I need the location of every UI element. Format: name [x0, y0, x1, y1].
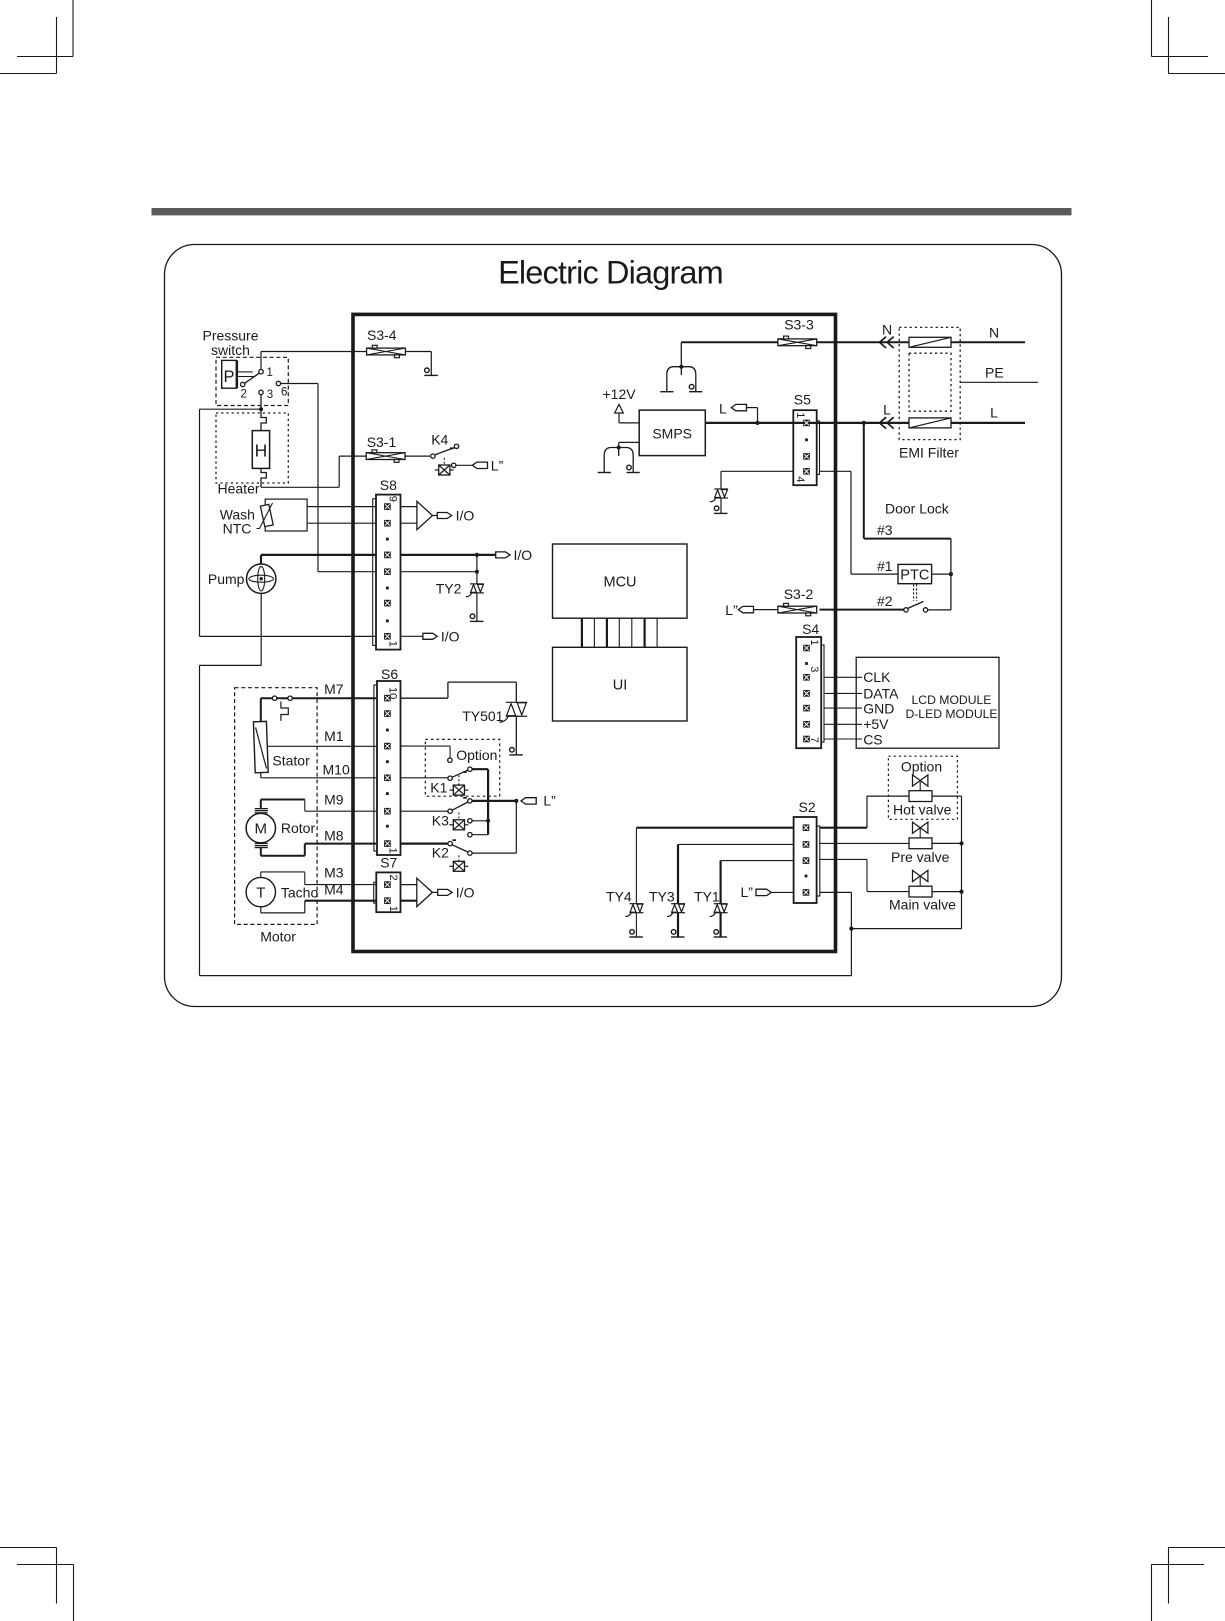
relay K1 common [448, 776, 452, 780]
triac TY1 [710, 904, 728, 917]
connector S4 [796, 637, 821, 748]
svg-text:Motor: Motor [260, 929, 296, 945]
motor dashed box [235, 688, 318, 925]
relay K4 coil [435, 465, 454, 475]
svg-text:Tacho: Tacho [281, 884, 319, 900]
svg-text:Pre valve: Pre valve [891, 849, 950, 865]
pressure sensor P body [222, 360, 237, 388]
wire L'' to S2 pin5 [771, 891, 793, 893]
relay K4 mech link [443, 458, 445, 465]
door switch NO [923, 608, 927, 612]
wire TY2 to terminal [476, 593, 478, 622]
wire hot valve return [932, 795, 962, 797]
svg-text:3: 3 [808, 666, 820, 672]
svg-text:EMI Filter: EMI Filter [899, 445, 959, 461]
crop mark bottom-right [1152, 1548, 1225, 1621]
heater bottom lead zigzag [261, 468, 266, 487]
fuse S3-3 [778, 336, 817, 348]
crop mark bottom-left [0, 1548, 74, 1621]
relay K3 mech link [458, 813, 460, 820]
wire heater to S3-1 [261, 486, 339, 488]
connector S7 shroud [374, 882, 377, 903]
wire L flag to L line [747, 407, 758, 409]
UI box [553, 647, 688, 721]
switch lever 2-1 [245, 373, 260, 383]
svg-text:4: 4 [794, 476, 806, 482]
svg-text:K4: K4 [431, 432, 448, 448]
svg-text:M8: M8 [324, 828, 344, 844]
connector S4 pins [803, 645, 810, 743]
wire M10 to K1 [401, 777, 448, 779]
connector S2 pins [803, 824, 810, 895]
wire M9 [260, 800, 262, 809]
wire pump return [260, 593, 262, 665]
wire bottom return rail [200, 975, 852, 977]
grey header rule [152, 208, 1072, 215]
op-amp U-S7 [401, 884, 417, 886]
node L'' relays [514, 799, 518, 803]
wire M1 to option contact [401, 745, 451, 747]
heater element H [252, 431, 269, 469]
pressure actuator links [238, 371, 253, 373]
svg-text:P: P [223, 368, 234, 386]
wire M4 [260, 907, 262, 913]
terminal of TY2 [470, 614, 484, 621]
svg-text:2: 2 [387, 875, 399, 881]
node TY2 pin4 [475, 570, 479, 574]
fuse S3-2 [778, 603, 817, 615]
svg-text:S6: S6 [381, 666, 398, 682]
node K3 bus [486, 819, 490, 823]
wire main valve return [932, 891, 962, 893]
svg-text:1: 1 [794, 412, 806, 418]
wire pump to S8 pin3 [260, 555, 262, 564]
svg-text:Stator: Stator [272, 752, 310, 768]
wire +5V [824, 723, 862, 725]
wire S8 pin3 to I/O [401, 554, 496, 556]
connector S6 shroud [374, 685, 377, 851]
svg-text:S7: S7 [380, 855, 397, 871]
wire S2 pin5 to return [820, 891, 852, 893]
mains plug lower [598, 446, 640, 473]
+12V arrow [615, 404, 624, 413]
valve symbol main [913, 870, 928, 881]
option contact [448, 758, 452, 762]
wire sense to S8 pin6 [200, 635, 377, 637]
wire S8 pin4 to TY2 [401, 571, 477, 573]
triac TY2 [466, 584, 484, 597]
connector S4 shroud [821, 645, 824, 742]
wire K4 coil to L-flag [456, 464, 472, 466]
thermistor element [260, 504, 273, 526]
relay K1 mech link [458, 775, 460, 784]
connector S5 pins [803, 420, 810, 427]
wire S2 pin1 to TY4 [636, 827, 793, 829]
terminal of TY501 [509, 748, 523, 755]
svg-text:L: L [883, 401, 891, 417]
svg-text:CLK: CLK [863, 669, 891, 685]
svg-text:S2: S2 [799, 799, 816, 815]
connector S8 pins [384, 503, 391, 639]
wire K3 A to bus [472, 820, 488, 822]
node L SMPS [755, 421, 759, 425]
svg-text:Rotor: Rotor [281, 820, 316, 836]
EMI choke L [909, 418, 951, 428]
fuse S3-1 [366, 450, 405, 462]
relay K4 NO contact [454, 444, 458, 448]
svg-text:Door Lock: Door Lock [885, 501, 950, 517]
relay K3 coil [449, 820, 468, 830]
wire TY1 to terminal [719, 913, 721, 937]
svg-text:switch: switch [211, 342, 250, 358]
node PTC junction [949, 572, 953, 576]
wire contact6 to S8 pin4 [281, 383, 318, 385]
chevrons L [880, 417, 894, 428]
flag L'' at S2 [756, 889, 771, 895]
crop mark top-right [1152, 0, 1225, 74]
relay K4 lever [435, 448, 455, 455]
wire M3 [260, 872, 262, 878]
connector S7 pins [384, 881, 391, 888]
wire TY501 to terminal [515, 716, 517, 755]
relay K3 lever [452, 802, 468, 810]
svg-text:S3-2: S3-2 [784, 586, 814, 602]
wire contact3 down to heater [260, 395, 262, 414]
wire NTC to S8 pin2 [307, 522, 376, 524]
svg-text:PE: PE [985, 364, 1004, 380]
wire N line [681, 341, 1025, 343]
pump motor [247, 564, 276, 593]
EMI choke N [909, 337, 951, 347]
triac TY3 [667, 904, 685, 917]
connector S2 [794, 817, 817, 903]
fuse S3-4 [367, 345, 406, 357]
heater top lead zigzag [261, 413, 266, 430]
wire left rail down [199, 409, 201, 636]
rotor bottom brush [255, 842, 268, 844]
wire S5 pin4 left [721, 470, 793, 472]
svg-text:M9: M9 [324, 792, 344, 808]
svg-text:3: 3 [267, 389, 273, 401]
wire NTC to S8 pin1 [307, 506, 376, 508]
svg-text:M: M [255, 821, 268, 838]
wire S2 pin1 to hot valve [820, 827, 867, 829]
terminal of TY1 [714, 930, 728, 937]
svg-text:S8: S8 [380, 477, 397, 493]
triac TY4 [625, 904, 643, 917]
svg-text:M4: M4 [324, 881, 344, 897]
terminal of S3-4 [424, 368, 438, 375]
terminal of TY3 [671, 930, 685, 937]
svg-text:1: 1 [267, 367, 273, 379]
M7 inline contacts [272, 696, 276, 700]
svg-text:9: 9 [386, 496, 398, 502]
wire S7 opamp to flag [432, 891, 437, 893]
connector S5 shroud [817, 421, 820, 474]
svg-text:D-LED MODULE: D-LED MODULE [905, 707, 997, 721]
svg-text:#3: #3 [877, 522, 893, 538]
crop mark top-left [0, 0, 73, 74]
wire M9 to K3 [401, 810, 448, 812]
svg-text:K3: K3 [432, 813, 449, 829]
svg-text:H: H [255, 441, 268, 461]
PTC box [898, 564, 932, 583]
svg-text:1: 1 [387, 906, 399, 912]
relay K2 coil [449, 861, 468, 871]
svg-text:K1: K1 [430, 780, 447, 796]
wire S2 pin3 to TY1 [721, 860, 794, 862]
SMPS box [639, 410, 705, 456]
relay K1 lever [452, 770, 468, 777]
pre valve coil [909, 838, 932, 849]
wire S5 pin4 right [820, 470, 852, 472]
svg-text:TY4: TY4 [606, 888, 632, 904]
door switch lever [908, 601, 924, 608]
flag I/O wash sense [437, 513, 451, 519]
contact 3 [259, 390, 263, 394]
wire M10 [260, 773, 262, 778]
svg-text:S5: S5 [794, 391, 811, 407]
svg-text:I/O: I/O [456, 507, 475, 523]
wire S2 pin2 to pre valve [820, 842, 909, 844]
svg-text:L”: L” [741, 884, 754, 900]
MCU box [553, 544, 688, 618]
svg-text:GND: GND [863, 700, 894, 716]
wire opamp to I/O flag [433, 515, 438, 517]
svg-text:1: 1 [386, 848, 398, 854]
svg-text:M1: M1 [324, 728, 344, 744]
flag L'' at S3-2 [738, 606, 753, 612]
wire L'' flag to S3-2 [754, 609, 778, 611]
flag L'' relays [521, 798, 536, 804]
wire TY3 to terminal [677, 913, 679, 937]
wire M1 [268, 745, 377, 747]
connector S2 shroud [817, 826, 820, 896]
wire L line [705, 422, 864, 424]
svg-text:2: 2 [241, 388, 247, 400]
connector S6 pins [384, 695, 391, 847]
contact 2 [241, 382, 245, 386]
svg-text:T: T [256, 885, 265, 902]
svg-text:+5V: +5V [863, 716, 889, 732]
triac TY501 [499, 702, 527, 722]
option valve dashed box [888, 756, 957, 819]
wash NTC body box [265, 499, 307, 531]
svg-text:L”: L” [491, 457, 504, 473]
svg-text:LCD MODULE: LCD MODULE [912, 693, 992, 707]
svg-text:Option: Option [901, 758, 942, 774]
svg-text:K2: K2 [432, 845, 449, 861]
wire S2 pin3 to main valve [820, 858, 867, 860]
stator winding [260, 698, 262, 721]
relay K1 coil [449, 785, 468, 795]
wire K3 B to bus [472, 834, 488, 836]
wire TY2 vertical [476, 555, 478, 584]
relay K2 common [448, 841, 452, 845]
LCD module box [856, 657, 999, 748]
hot valve coil [909, 791, 932, 802]
svg-text:M3: M3 [324, 864, 344, 880]
svg-text:I/O: I/O [441, 628, 460, 644]
svg-text:M10: M10 [323, 762, 350, 778]
relay K2 mech link [458, 855, 460, 862]
wire M7 [261, 697, 376, 699]
contact 1 [259, 370, 263, 374]
wire S8 pin6 to I/O [401, 635, 423, 637]
wire DATA [824, 692, 862, 694]
svg-text:UI: UI [613, 678, 628, 694]
chevrons N [880, 337, 894, 348]
relay K4 common contact [431, 454, 435, 458]
wire K2 NO to L-node [472, 852, 516, 854]
svg-text:S3-3: S3-3 [784, 317, 814, 333]
wire S3-2 line [820, 609, 904, 611]
svg-text:NTC: NTC [223, 521, 252, 537]
connector S8 [376, 495, 401, 650]
wire plug to SMPS [618, 442, 620, 447]
triac door [710, 489, 728, 502]
wire PE [960, 381, 1038, 383]
node L to door [862, 421, 866, 425]
svg-text:Heater: Heater [218, 481, 260, 497]
wire PTC right [932, 573, 951, 575]
svg-text:S3-1: S3-1 [367, 434, 397, 450]
svg-text:TY501: TY501 [462, 708, 503, 724]
flag L'' at K4 [472, 462, 487, 468]
option dashed box [425, 739, 499, 796]
flag I/O tacho [438, 889, 452, 895]
connector S8 shroud [373, 499, 376, 646]
svg-text:L: L [719, 401, 727, 417]
EMI filter inner dashed box [909, 353, 951, 411]
svg-text:CS: CS [863, 732, 882, 748]
wire L line right [864, 422, 1025, 424]
wire plug to N line [680, 342, 682, 366]
svg-text:N: N [989, 324, 999, 340]
wire TY501 top [515, 682, 517, 702]
wire CLK [824, 676, 862, 678]
relay K3 common [448, 809, 452, 813]
wire #1 to PTC [851, 573, 898, 575]
mains plug upper [660, 365, 702, 392]
svg-text:L”: L” [543, 793, 556, 809]
svg-text:N: N [882, 321, 892, 337]
svg-text:TY2: TY2 [436, 580, 462, 596]
wire S6 pin10 to TY501 [401, 697, 448, 699]
wire M8 to K2 [401, 842, 448, 844]
node main valve return [959, 890, 963, 894]
wire door #3 [863, 423, 865, 539]
svg-text:Hot valve: Hot valve [893, 802, 952, 818]
wire sense to left rail [200, 408, 262, 410]
svg-text:M7: M7 [324, 681, 344, 697]
relay K3 aux contact B [468, 833, 472, 837]
node TY2 anode [475, 553, 479, 557]
wire pre valve return [932, 842, 962, 844]
pressure switch dashed box [216, 357, 288, 405]
wire contact1 to S3-4 [260, 352, 262, 370]
svg-text:PTC: PTC [900, 568, 929, 584]
svg-text:TY3: TY3 [649, 888, 675, 904]
wire return to valves [851, 928, 961, 930]
outer rounded border [165, 245, 1062, 1007]
relay K2 NO contact [468, 851, 472, 855]
svg-text:S3-4: S3-4 [367, 327, 397, 343]
relay K4 coil terminal [452, 463, 456, 467]
tacho T [246, 877, 275, 906]
connector S7 [376, 872, 400, 912]
svg-text:Pump: Pump [208, 571, 245, 587]
wire TY4 to terminal [635, 913, 637, 937]
wire S2 pin2 to TY3 [678, 843, 794, 845]
wire S3-1 to K4 [405, 455, 431, 457]
MCU-UI bus [582, 618, 657, 647]
svg-text:L”: L” [725, 602, 738, 618]
terminal of TY4 [629, 930, 643, 937]
connector S6 [377, 681, 401, 855]
svg-text:+12V: +12V [603, 386, 637, 402]
svg-text:MCU: MCU [603, 575, 636, 591]
wire K1 to K3 bus [472, 768, 488, 770]
svg-text:#2: #2 [877, 593, 893, 609]
heater dashed box [216, 413, 288, 483]
wire GND [824, 707, 862, 709]
contact 6 [276, 381, 280, 385]
wire M8 [260, 848, 262, 856]
svg-text:TY1: TY1 [694, 888, 720, 904]
door switch common [904, 608, 908, 612]
svg-text:I/O: I/O [456, 884, 475, 900]
op-amp U-S8 [401, 506, 417, 508]
valve symbol pre [913, 822, 928, 833]
relay K3 NO contact [468, 799, 472, 803]
svg-text:SMPS: SMPS [652, 425, 692, 441]
PTC mech link [913, 584, 915, 601]
flag L at SMPS [731, 404, 746, 410]
rotor M [246, 813, 275, 842]
relay K3 aux contact A [468, 819, 472, 823]
svg-text:I/O: I/O [514, 547, 533, 563]
main PCB board outline [353, 314, 836, 951]
motor thermal protector [281, 702, 288, 721]
rotor top brush [255, 808, 268, 810]
wire K3 NO to L-node [472, 800, 516, 802]
svg-text:6: 6 [281, 387, 287, 399]
svg-text:Main valve: Main valve [889, 897, 956, 913]
svg-text:Electric Diagram: Electric Diagram [498, 255, 723, 291]
svg-text:#1: #1 [877, 558, 893, 574]
EMI filter outer dashed box [899, 327, 960, 439]
svg-text:7: 7 [808, 737, 820, 743]
terminal of door triac [714, 506, 728, 513]
flag I/O pump [496, 552, 510, 558]
valve symbol hot [913, 775, 928, 786]
svg-text:DATA: DATA [863, 685, 899, 701]
svg-text:S4: S4 [802, 621, 819, 637]
svg-text:1: 1 [386, 641, 398, 647]
svg-text:10: 10 [386, 687, 398, 699]
relay K1 NO contact [468, 767, 472, 771]
connector S5 [793, 410, 816, 485]
wire CS [824, 738, 862, 740]
svg-text:L: L [990, 405, 998, 421]
wire +12V to SMPS [619, 422, 639, 424]
node pre valve return [959, 841, 963, 845]
node valve return [849, 927, 853, 931]
relay K2 lever [452, 845, 468, 852]
wire door switch to #3 [928, 609, 951, 611]
node heater sense [259, 407, 263, 411]
